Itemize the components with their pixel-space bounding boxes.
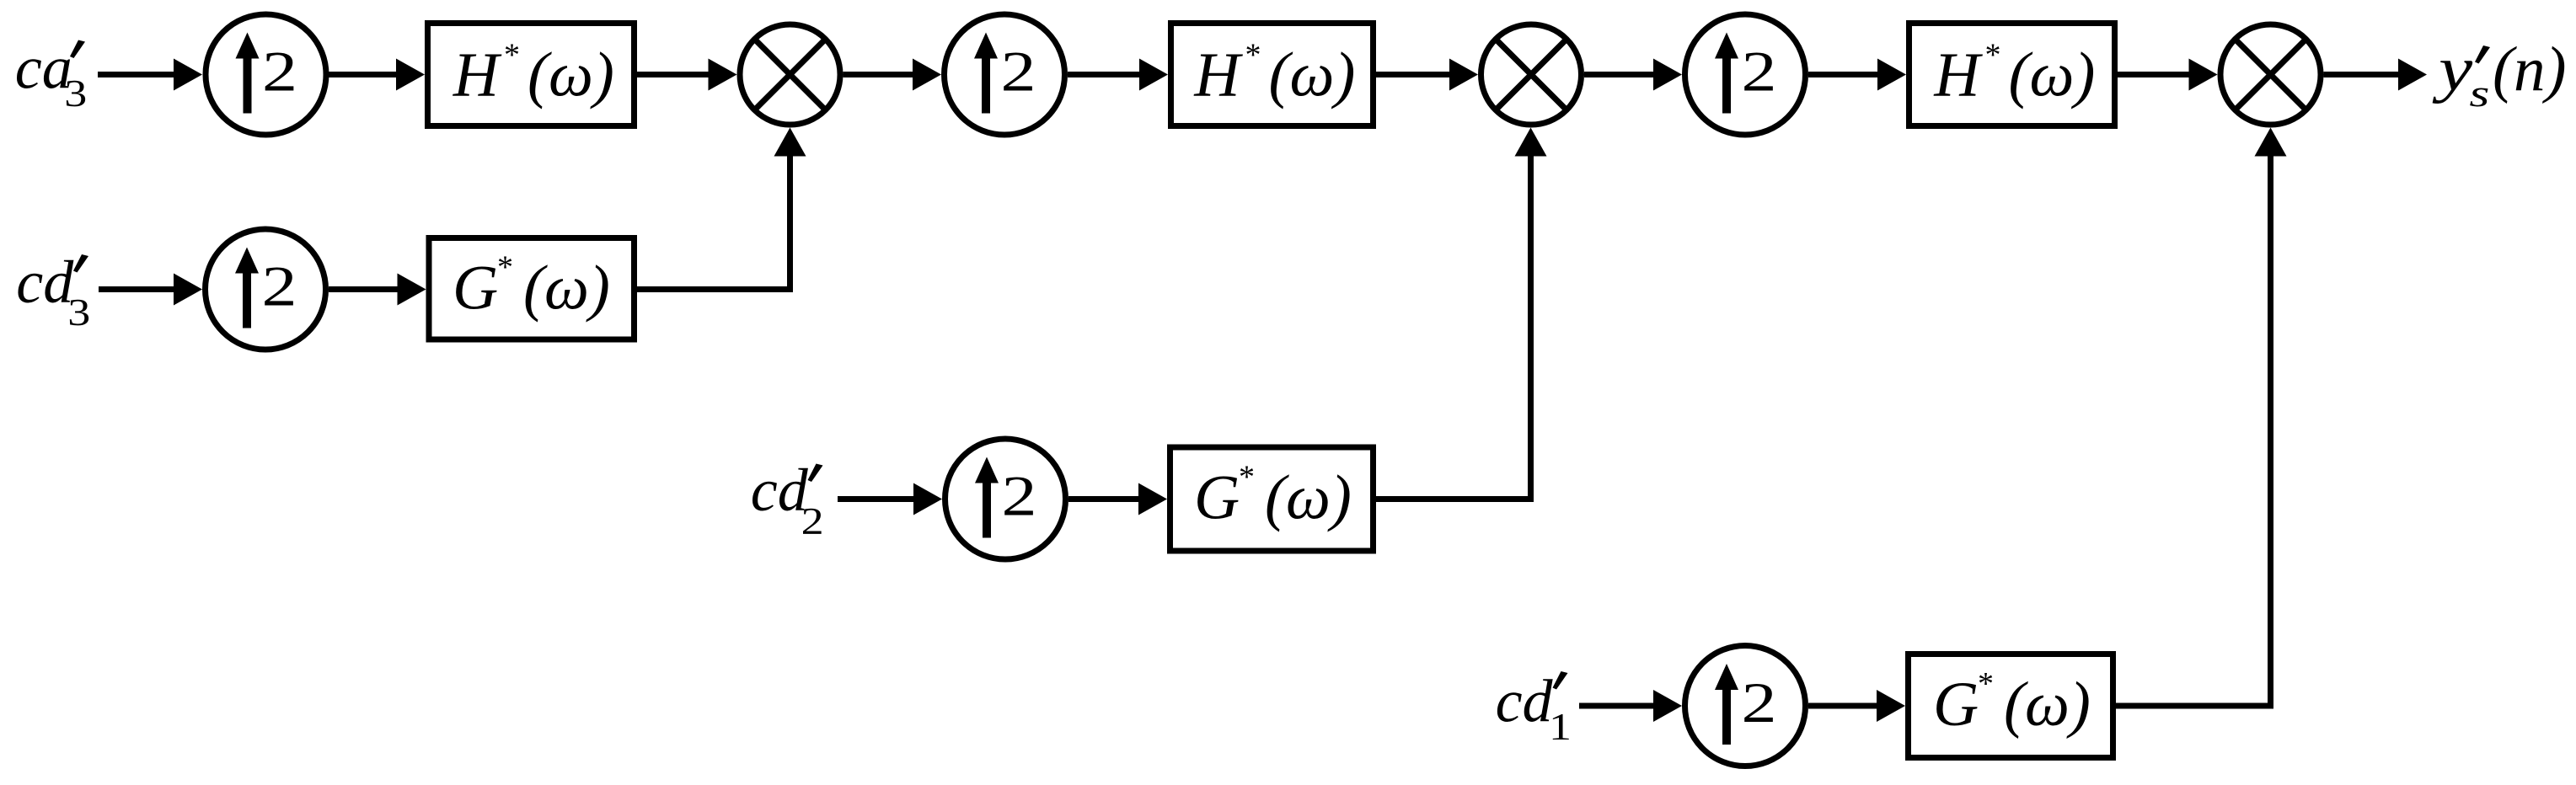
wire filter H2 to multiplier M2 xyxy=(1376,72,1452,77)
upsampler A1 (up 2) xyxy=(206,14,326,135)
wire upsampler A1 to filter H1 xyxy=(329,72,398,77)
multiplier M3 xyxy=(2220,24,2321,125)
filter box G1 G*(w) xyxy=(429,238,635,340)
svg-text:3: 3 xyxy=(67,291,90,334)
svg-text:(n): (n) xyxy=(2493,35,2566,104)
wire cd'1 to upsampler B3 xyxy=(1579,703,1656,709)
wire upsampler B3 to filter G3 xyxy=(1808,703,1879,709)
wire vertical up into multiplier M1 xyxy=(787,155,793,292)
wire vertical up into multiplier M3 xyxy=(2268,155,2273,709)
svg-text:cd: cd xyxy=(1496,668,1554,735)
svg-text:3: 3 xyxy=(64,72,87,115)
svg-text:cd: cd xyxy=(16,248,74,316)
upsampler A3 (up 2) xyxy=(1685,14,1806,135)
svg-text:s: s xyxy=(2469,72,2489,115)
wire cd'3 to upsampler B1 xyxy=(99,286,175,292)
wire upsampler B1 to filter G1 xyxy=(329,286,399,292)
wire filter G3 to corner below multiplier M3 xyxy=(2116,703,2273,709)
wire upsampler A2 to filter H2 xyxy=(1068,72,1142,77)
filter box G2 G*(w) xyxy=(1170,447,1374,551)
wire multiplier M2 to upsampler A3 xyxy=(1584,72,1656,77)
multiplier M2 xyxy=(1481,24,1582,125)
wire filter G2 to corner below multiplier M2 xyxy=(1376,496,1534,502)
wire cd'2 to upsampler B2 xyxy=(838,496,915,502)
svg-text:cd: cd xyxy=(751,457,809,524)
multiplier M1 xyxy=(740,24,840,125)
wire filter G1 to corner below multiplier M1 xyxy=(637,286,793,292)
filter box H2 H*(w) xyxy=(1171,24,1374,126)
filter box H1 H*(w) xyxy=(428,24,635,126)
svg-text:2: 2 xyxy=(801,500,824,542)
wire upsampler A3 to filter H3 xyxy=(1808,72,1880,77)
svg-text:y: y xyxy=(2432,35,2473,104)
wire upsampler B2 to filter G2 xyxy=(1068,496,1141,502)
upsampler B1 (up 2) xyxy=(206,229,326,350)
wire vertical up into multiplier M2 xyxy=(1528,155,1534,502)
wire ca'3 to upsampler A1 xyxy=(98,72,175,77)
filter box H3 H*(w) xyxy=(1909,24,2115,126)
upsampler B2 (up 2) xyxy=(945,439,1066,559)
svg-text:1: 1 xyxy=(1549,706,1572,748)
wire multiplier M1 to upsampler A2 xyxy=(843,72,916,77)
wire multiplier M3 to output xyxy=(2324,72,2402,77)
filter box G3 G*(w) xyxy=(1909,654,2113,758)
upsampler A2 (up 2) xyxy=(945,14,1065,135)
upsampler B3 (up 2) xyxy=(1685,646,1806,766)
wire filter H1 to multiplier M1 xyxy=(637,72,710,77)
wire filter H3 to multiplier M3 xyxy=(2118,72,2191,77)
